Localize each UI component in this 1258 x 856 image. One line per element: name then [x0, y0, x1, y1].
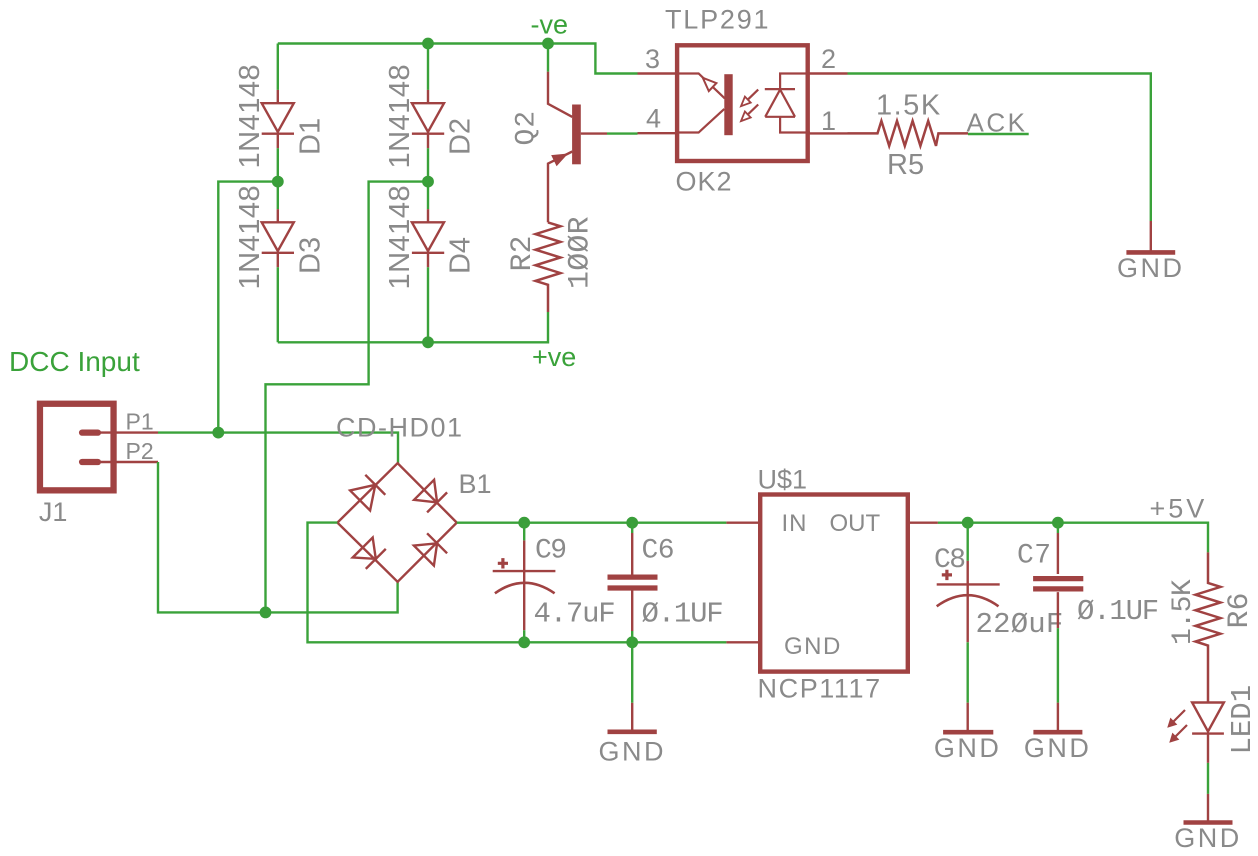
- OK2 pin 4 stub: [638, 132, 678, 134]
- wire pin2 to GND: [848, 74, 1151, 222]
- ground GND below C8: [943, 703, 993, 733]
- capacitor C8 polarized: [937, 561, 1000, 642]
- svg-text:D1: D1: [295, 118, 327, 155]
- svg-text:1: 1: [821, 106, 836, 136]
- junction D2 D4: [422, 176, 434, 188]
- OK2 phototransistor: [675, 74, 733, 136]
- svg-text:D4: D4: [445, 237, 477, 274]
- OK2 pin 1 stub: [808, 132, 848, 134]
- resistor R6: [1196, 552, 1221, 702]
- U$1 GND pin stub: [726, 641, 760, 643]
- opto-coupler OK2 box: [677, 45, 808, 161]
- svg-text:C8: C8: [934, 545, 965, 576]
- junction C6 top: [626, 517, 638, 529]
- svg-text:GND: GND: [1024, 733, 1092, 763]
- diode D1: [262, 90, 294, 148]
- svg-text:1.5K: 1.5K: [1168, 579, 1199, 645]
- svg-text:Q2: Q2: [512, 110, 543, 146]
- B1 diode bottom-right: [414, 533, 447, 565]
- svg-text:P1: P1: [126, 408, 154, 434]
- svg-text:-ve: -ve: [531, 10, 569, 40]
- junction P2: [260, 607, 272, 619]
- svg-text:IN: IN: [782, 510, 808, 537]
- LED LED1: [1192, 703, 1224, 763]
- B1 diode top-left: [350, 475, 385, 511]
- wire B1 minus to GND rail: [308, 523, 727, 643]
- svg-text:1.5K: 1.5K: [876, 90, 942, 122]
- wire ACK net: [968, 133, 1029, 135]
- svg-text:Ø.1UF: Ø.1UF: [1077, 595, 1158, 628]
- wire D2D4 junction to P2 net: [266, 182, 429, 613]
- wire P2 net: [158, 462, 398, 612]
- ground GND bottom right: [1184, 794, 1233, 823]
- wire D2 anode: [427, 44, 429, 90]
- junction C8 top: [962, 517, 974, 529]
- transistor Q2: [548, 72, 607, 223]
- bridge rectifier B1 diamond: [337, 463, 456, 582]
- capacitor C6: [608, 523, 658, 643]
- svg-text:C6: C6: [642, 536, 675, 567]
- svg-text:U$1: U$1: [758, 465, 808, 495]
- connector J1: [40, 404, 158, 491]
- OK2 pin 3 stub: [638, 72, 678, 74]
- svg-text:R5: R5: [887, 149, 924, 181]
- wire D1 anode: [277, 44, 279, 90]
- junction C9 top: [518, 517, 530, 529]
- OK2 pin 2 stub: [808, 72, 848, 74]
- svg-text:C7: C7: [1017, 541, 1052, 572]
- svg-text:GND: GND: [1117, 253, 1185, 283]
- svg-text:4: 4: [646, 104, 661, 134]
- wire D2-D4: [427, 148, 429, 209]
- svg-text:GND: GND: [598, 737, 666, 767]
- wire top -ve rail: [278, 44, 638, 74]
- svg-text:C9: C9: [535, 536, 566, 567]
- svg-text:1N4148: 1N4148: [234, 64, 266, 169]
- svg-text:1N4148: 1N4148: [384, 64, 416, 169]
- svg-text:22ØuF: 22ØuF: [976, 608, 1064, 641]
- wire C6 to GND: [631, 642, 633, 703]
- svg-text:GND: GND: [1174, 823, 1242, 853]
- svg-text:1N4148: 1N4148: [234, 185, 266, 290]
- wire P1 net: [158, 433, 398, 464]
- wire C8 top stub: [967, 523, 969, 561]
- junction C9 bottom: [518, 636, 530, 648]
- junction top D2: [422, 38, 434, 50]
- OK2 light arrows: [741, 90, 758, 122]
- wire +5V rail: [938, 523, 1208, 553]
- svg-text:D3: D3: [295, 237, 327, 274]
- U$1 IN pin stub: [726, 522, 760, 524]
- wire C7 to GND: [1057, 628, 1059, 703]
- wire D1D3 junction to P1 net: [218, 182, 277, 433]
- wire +ve rail: [278, 312, 548, 342]
- junction D4 bottom: [422, 336, 434, 348]
- svg-text:GND: GND: [934, 733, 1002, 763]
- diode D3: [262, 209, 294, 267]
- svg-text:+5V: +5V: [1150, 493, 1208, 523]
- svg-text:GND: GND: [784, 633, 842, 660]
- resistor R2: [536, 222, 561, 312]
- svg-text:OUT: OUT: [830, 510, 881, 537]
- svg-text:DCC Input: DCC Input: [9, 346, 140, 377]
- svg-text:4.7uF: 4.7uF: [534, 598, 615, 631]
- wire D1-D3: [277, 148, 279, 209]
- B1 diode top-right: [414, 480, 447, 513]
- svg-text:TLP291: TLP291: [665, 5, 770, 35]
- svg-text:LED1: LED1: [1226, 685, 1258, 755]
- junction P1: [212, 427, 224, 439]
- svg-text:Ø.1UF: Ø.1UF: [642, 598, 723, 631]
- capacitor C7: [1033, 523, 1083, 628]
- U$1 OUT pin stub: [908, 522, 938, 524]
- LED1 light arrows: [1168, 710, 1187, 742]
- svg-text:P2: P2: [126, 438, 154, 464]
- B1 diode bottom-left: [353, 538, 386, 569]
- svg-text:R6: R6: [1223, 592, 1257, 628]
- ground GND top right: [1126, 221, 1175, 252]
- ground GND below C7: [1033, 703, 1082, 733]
- svg-text:3: 3: [645, 44, 660, 74]
- ground GND below C6: [608, 703, 657, 732]
- diode D2: [412, 90, 444, 148]
- junction D1 D3: [272, 176, 284, 188]
- capacitor C9 polarized: [493, 523, 556, 643]
- wire Q2 collector stub: [547, 44, 549, 72]
- resistor R5: [848, 121, 969, 146]
- svg-text:NCP1117: NCP1117: [758, 674, 882, 704]
- wire D4 cathode to +ve rail: [427, 267, 429, 342]
- svg-text:ACK: ACK: [967, 108, 1028, 138]
- wire C8 to GND: [967, 642, 969, 702]
- svg-text:1N4148: 1N4148: [384, 185, 416, 290]
- wire Q2 base to OK2: [607, 132, 638, 134]
- svg-text:1ØØR: 1ØØR: [564, 216, 598, 289]
- svg-text:J1: J1: [39, 497, 68, 527]
- svg-text:B1: B1: [459, 469, 492, 499]
- regulator U$1 box: [760, 495, 908, 672]
- svg-text:OK2: OK2: [676, 167, 733, 197]
- svg-text:CD-HD01: CD-HD01: [336, 413, 464, 443]
- svg-text:+ve: +ve: [532, 342, 576, 372]
- junction C6 bottom: [626, 636, 638, 648]
- wire B1 plus rail to U$1 IN: [457, 522, 727, 524]
- wire D3 cathode to +ve rail: [277, 267, 279, 342]
- junction -ve Q2: [542, 38, 554, 50]
- svg-text:R2: R2: [506, 235, 540, 271]
- svg-text:D2: D2: [445, 118, 477, 155]
- wire LED1 to GND: [1207, 763, 1209, 794]
- diode D4: [412, 209, 444, 267]
- svg-text:2: 2: [821, 44, 836, 74]
- junction C7 top: [1052, 517, 1064, 529]
- OK2 infrared LED: [765, 74, 810, 133]
